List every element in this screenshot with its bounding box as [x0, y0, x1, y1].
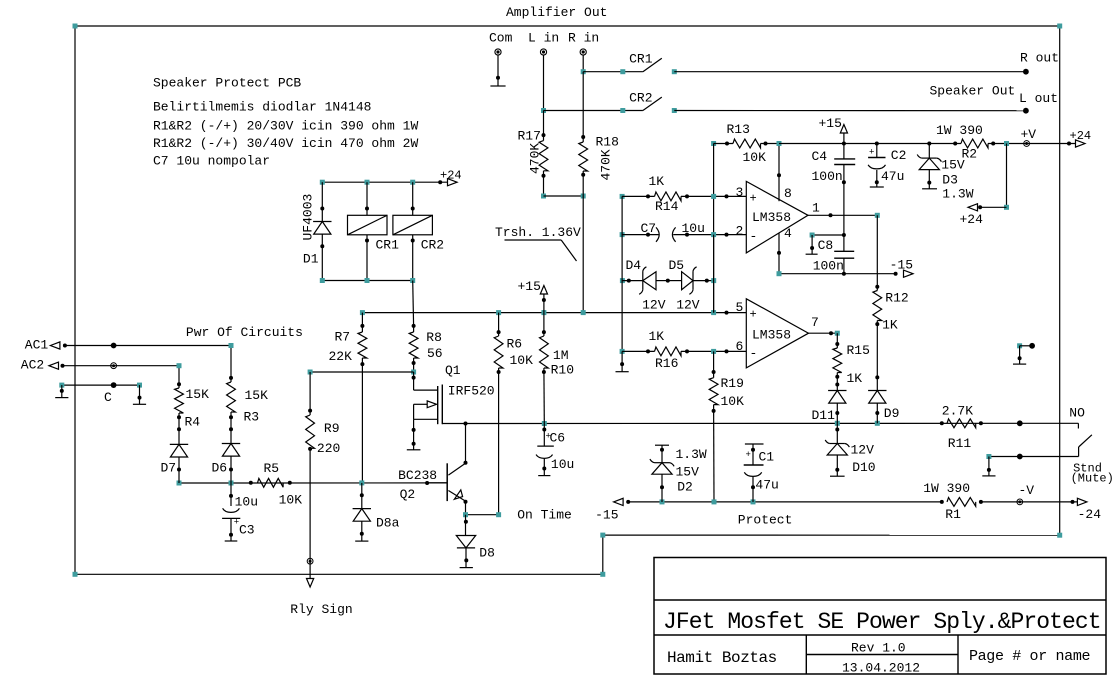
op-amp U1A LM358	[746, 181, 808, 253]
zener D5 12V	[682, 272, 693, 290]
wire R10 down to C6 node	[543, 368, 545, 424]
svg-text:R14: R14	[655, 199, 679, 214]
svg-text:R6: R6	[507, 337, 523, 352]
resistor R19 10K	[713, 351, 715, 377]
svg-text:2: 2	[736, 224, 744, 239]
svg-text:R5: R5	[264, 461, 280, 476]
resistor R18 470K	[582, 72, 584, 142]
ground under R16 left	[621, 351, 623, 371]
transistor Q1 IRF520	[413, 372, 415, 390]
svg-text:Belirtilmemis diodlar 1N4148: Belirtilmemis diodlar 1N4148	[153, 100, 371, 115]
zener D10 12V	[836, 423, 838, 443]
svg-text:R7: R7	[335, 330, 351, 345]
svg-text:LM358: LM358	[752, 210, 791, 225]
svg-text:+: +	[750, 192, 757, 206]
net -15 arrow (pin4 rail)	[904, 270, 914, 277]
svg-text:R10: R10	[551, 363, 574, 378]
terminal -V	[1017, 499, 1023, 505]
resistor R12 1K	[876, 215, 878, 290]
svg-text:Amplifier Out: Amplifier Out	[506, 5, 607, 20]
wire R in down	[582, 55, 584, 71]
svg-text:C3: C3	[239, 523, 255, 538]
svg-text:+15: +15	[819, 116, 842, 131]
capacitor C1 47u	[745, 443, 764, 445]
svg-text:R in: R in	[568, 31, 599, 46]
svg-text:-: -	[750, 229, 758, 244]
wire relay bottom rail	[322, 280, 412, 282]
diode D9	[876, 321, 878, 391]
net +24 arrow (left-pointing)	[968, 204, 978, 211]
capacitor C4 100n	[843, 144, 845, 159]
wire pin4 V-	[778, 233, 780, 274]
svg-text:15K: 15K	[186, 387, 210, 402]
wire +V to +24	[1027, 143, 1076, 145]
wire pin1 output	[808, 214, 877, 216]
contact dot NO row	[1017, 420, 1023, 426]
svg-text:220: 220	[317, 441, 340, 456]
svg-text:Q2: Q2	[400, 487, 416, 502]
svg-text:7: 7	[811, 315, 819, 330]
svg-text:CR1: CR1	[376, 238, 400, 253]
wire R7 down to Q2 base line	[361, 358, 363, 483]
svg-text:C1: C1	[759, 449, 775, 464]
svg-text:47u: 47u	[881, 169, 904, 184]
diode D1 UF4003	[321, 182, 323, 221]
svg-text:Speaker Protect PCB: Speaker Protect PCB	[153, 76, 301, 91]
svg-text:3: 3	[736, 185, 744, 200]
svg-text:Protect: Protect	[738, 512, 793, 527]
wire R17 bottom to R18 bottom	[541, 194, 546, 199]
svg-text:On Time: On Time	[517, 508, 572, 523]
svg-text:1K: 1K	[882, 317, 898, 332]
svg-text:Hamit Boztas: Hamit Boztas	[667, 649, 777, 667]
resistor R2 1W 390	[961, 139, 988, 148]
svg-text:D1: D1	[303, 251, 319, 266]
svg-text:Pwr Of Circuits: Pwr Of Circuits	[186, 325, 303, 340]
svg-text:C: C	[104, 390, 112, 405]
contact pivot to ground	[1017, 343, 1022, 348]
svg-text:+: +	[869, 148, 874, 158]
net -24 arrow	[1071, 500, 1075, 504]
svg-text:12V: 12V	[851, 443, 875, 458]
svg-text:BC238: BC238	[398, 468, 437, 483]
svg-text:IRF520: IRF520	[448, 384, 495, 399]
resistor R1 1W 390	[940, 500, 944, 504]
svg-text:R1: R1	[945, 507, 961, 522]
wire Q2 base row	[179, 482, 447, 484]
wire L in down	[543, 55, 545, 110]
wire relay rail down to R8	[412, 281, 415, 326]
resistor R16 1K	[620, 349, 625, 354]
diode D8	[465, 515, 467, 536]
svg-text:R11: R11	[948, 436, 972, 451]
svg-text:+V: +V	[1021, 127, 1037, 142]
net +24 arrow (relay rail)	[448, 179, 458, 186]
svg-text:D3: D3	[942, 173, 958, 188]
svg-text:+24: +24	[440, 169, 462, 183]
diode D7	[178, 413, 180, 444]
svg-text:R out: R out	[1020, 51, 1059, 66]
svg-text:1: 1	[812, 200, 820, 215]
wire R13 left column down	[713, 144, 715, 313]
capacitor C7 10u nonpolar	[620, 232, 625, 237]
diode D6	[230, 412, 232, 444]
resistor R8 56	[413, 326, 415, 332]
svg-text:8: 8	[784, 186, 792, 201]
svg-text:4: 4	[784, 226, 792, 241]
svg-text:LM358: LM358	[752, 328, 791, 343]
svg-text:C8: C8	[818, 238, 834, 253]
svg-text:-24: -24	[1078, 507, 1102, 522]
svg-text:10K: 10K	[743, 150, 767, 165]
svg-text:1K: 1K	[649, 329, 665, 344]
svg-text:C7 10u nompolar: C7 10u nompolar	[153, 154, 270, 169]
svg-text:D6: D6	[212, 461, 228, 476]
wire pin2 input	[714, 234, 747, 236]
terminal R out	[1023, 69, 1029, 75]
svg-text:R17: R17	[518, 129, 541, 144]
resistor R13 10K	[711, 141, 716, 146]
svg-text:470K: 470K	[599, 149, 614, 180]
wire pin7 output	[809, 332, 838, 334]
svg-text:D11: D11	[812, 408, 836, 423]
svg-text:10K: 10K	[721, 394, 745, 409]
wire Q1 source to ground	[413, 419, 415, 450]
svg-text:1.3W: 1.3W	[676, 447, 707, 462]
svg-text:D7: D7	[161, 461, 177, 476]
svg-text:Rev 1.0: Rev 1.0	[851, 641, 906, 656]
svg-text:R15: R15	[847, 343, 870, 358]
svg-text:-: -	[750, 346, 758, 361]
svg-text:R12: R12	[885, 291, 908, 306]
svg-text:D9: D9	[884, 406, 900, 421]
terminal L in	[540, 49, 546, 55]
capacitor C3 10u	[230, 483, 232, 506]
svg-text:+: +	[546, 432, 551, 442]
svg-text:L out: L out	[1019, 91, 1058, 106]
svg-text:AC2: AC2	[21, 358, 44, 373]
svg-text:1K: 1K	[649, 174, 665, 189]
svg-text:15V: 15V	[941, 158, 965, 173]
wire Q2 emitter down	[465, 501, 467, 515]
svg-text:C6: C6	[550, 431, 566, 446]
diode D11	[836, 373, 838, 391]
svg-text:D8a: D8a	[376, 516, 400, 531]
zener D3 15V 1.3W	[928, 144, 930, 159]
svg-text:JFet Mosfet SE Power Sply.&Pro: JFet Mosfet SE Power Sply.&Protect	[663, 609, 1101, 635]
net +24 arrow (right)	[1076, 140, 1086, 147]
wire CR2 to L out	[674, 110, 1026, 112]
ground right of C row	[139, 385, 141, 404]
svg-text:1W 390: 1W 390	[923, 481, 970, 496]
wire R19 down to Protect rail	[713, 405, 715, 502]
svg-text:5: 5	[736, 300, 744, 315]
resistor R15 1K	[836, 333, 838, 348]
svg-text:Speaker Out: Speaker Out	[930, 84, 1016, 99]
terminal Com	[495, 49, 501, 55]
wire R18 node down to +15 rail	[582, 196, 584, 313]
svg-text:12V: 12V	[642, 298, 666, 313]
relay contact CR1	[581, 69, 586, 74]
resistor R14 1K	[620, 194, 625, 199]
svg-text:10u: 10u	[235, 495, 258, 510]
capacitor C8 100n	[812, 234, 844, 236]
svg-text:15V: 15V	[676, 465, 700, 480]
wire +V rail	[779, 143, 961, 145]
svg-text:22K: 22K	[329, 349, 353, 364]
wire R6 down to On Time node	[498, 368, 500, 515]
terminal R in	[580, 49, 586, 55]
svg-text:10u: 10u	[551, 457, 574, 472]
svg-text:+15: +15	[518, 279, 541, 294]
ground under Stnd row	[988, 457, 990, 476]
svg-text:R19: R19	[721, 376, 744, 391]
wire pin8 V+	[778, 144, 780, 202]
svg-text:1M: 1M	[553, 348, 569, 363]
wire C common row	[62, 384, 140, 386]
svg-text:D4: D4	[626, 258, 642, 273]
wire +24 relay rail	[322, 181, 447, 183]
wire Q1 drain / NO line	[442, 422, 1078, 424]
resistor R7 22K	[361, 313, 363, 332]
svg-text:+: +	[750, 308, 757, 322]
resistor R3 15K	[230, 346, 232, 383]
op-amp U1B LM358	[746, 299, 808, 368]
terminal +V	[1024, 141, 1030, 147]
svg-text:R8: R8	[426, 330, 442, 345]
svg-text:C4: C4	[812, 149, 828, 164]
svg-text:15K: 15K	[245, 388, 269, 403]
svg-text:-15: -15	[595, 508, 618, 523]
wire +15 rail to op-amp pin5	[362, 312, 746, 314]
relay coil CR2	[412, 182, 414, 215]
svg-text:L in: L in	[528, 31, 559, 46]
transistor Q2 BC238	[446, 463, 448, 501]
svg-text:NO: NO	[1069, 405, 1085, 420]
svg-text:R13: R13	[727, 122, 750, 137]
svg-text:D10: D10	[852, 460, 875, 475]
wire AC1	[65, 345, 231, 347]
svg-text:R1&R2 (-/+) 20/30V icin 390 oh: R1&R2 (-/+) 20/30V icin 390 ohm 1W	[153, 118, 418, 133]
svg-text:1.3W: 1.3W	[942, 186, 973, 201]
net Rly Sign arrow	[307, 579, 314, 588]
svg-text:R18: R18	[596, 135, 619, 150]
wire gate node	[310, 371, 414, 373]
resistor R10 1M	[543, 313, 545, 336]
svg-text:Q1: Q1	[445, 363, 461, 378]
svg-text:Trsh. 1.36V: Trsh. 1.36V	[495, 225, 581, 240]
svg-text:10u: 10u	[682, 221, 705, 236]
svg-text:R3: R3	[244, 410, 260, 425]
svg-text:10K: 10K	[510, 353, 534, 368]
svg-text:UF4003: UF4003	[301, 194, 316, 241]
svg-text:100n: 100n	[813, 258, 844, 273]
zener D2 15V 1.3W	[655, 444, 669, 446]
svg-text:CR2: CR2	[629, 91, 652, 106]
svg-text:Page # or name: Page # or name	[969, 648, 1090, 665]
relay coil CR1	[366, 182, 368, 215]
diode D8a	[361, 483, 363, 509]
svg-text:AC1: AC1	[25, 338, 49, 353]
wire Q2 collector up to NO line	[465, 424, 467, 464]
svg-text:R9: R9	[324, 421, 340, 436]
svg-text:CR2: CR2	[421, 238, 444, 253]
svg-text:470K: 470K	[528, 143, 543, 174]
zener D4 12V	[620, 278, 625, 283]
svg-text:Rly Sign: Rly Sign	[290, 602, 352, 617]
wire Protect rail	[628, 501, 942, 503]
resistor R17 470K	[543, 111, 545, 141]
capacitor C2 47u	[876, 144, 878, 158]
capacitor C6 10u	[543, 424, 545, 447]
svg-text:-V: -V	[1019, 483, 1035, 498]
wire Stnd row	[989, 456, 1079, 458]
svg-text:2.7K: 2.7K	[942, 404, 973, 419]
svg-text:D5: D5	[669, 258, 685, 273]
svg-text:13.04.2012: 13.04.2012	[842, 661, 920, 676]
ground left of C row	[61, 385, 63, 398]
wire On Time node	[466, 514, 499, 516]
resistor R9 220	[309, 372, 311, 415]
resistor R5 10K	[258, 478, 284, 487]
wire +24 return branch	[1006, 144, 1008, 208]
wire R8 to Q1 gate	[413, 358, 415, 372]
svg-text:(Mute): (Mute)	[1071, 472, 1114, 486]
svg-text:1K: 1K	[847, 371, 863, 386]
wire right column (pin5 net)	[713, 235, 715, 313]
wire left column	[621, 196, 623, 351]
svg-text:C7: C7	[641, 221, 657, 236]
ground under Com	[497, 55, 499, 86]
svg-text:100n: 100n	[812, 169, 843, 184]
svg-text:56: 56	[427, 346, 443, 361]
svg-text:R1&R2 (-/+) 30/40V icin 470 oh: R1&R2 (-/+) 30/40V icin 470 ohm 2W	[153, 136, 418, 151]
svg-text:1W 390: 1W 390	[936, 123, 983, 138]
svg-text:+24: +24	[1070, 129, 1092, 143]
title block	[654, 558, 1106, 675]
wire pin3 input	[714, 195, 747, 197]
svg-text:10K: 10K	[279, 493, 303, 508]
svg-text:12V: 12V	[676, 298, 700, 313]
schematic frame / ground bus wire	[75, 25, 1060, 27]
terminal L out	[1023, 108, 1029, 114]
wire AC2	[63, 365, 180, 367]
wire R9 down to Rly Sign	[309, 448, 311, 578]
svg-text:47u: 47u	[755, 477, 778, 492]
svg-text:-15: -15	[890, 258, 913, 273]
svg-text:R16: R16	[655, 356, 678, 371]
svg-text:C2: C2	[891, 148, 907, 163]
svg-text:Com: Com	[489, 31, 513, 46]
svg-text:D8: D8	[479, 546, 495, 561]
svg-text:+: +	[746, 450, 751, 460]
wire pin4 rail to -15	[779, 273, 896, 275]
resistor R4 15K	[178, 366, 180, 388]
svg-text:CR1: CR1	[629, 52, 653, 67]
svg-text:R4: R4	[185, 415, 201, 430]
resistor R6 10K	[498, 313, 500, 336]
relay contact CR2	[541, 108, 546, 113]
svg-text:+24: +24	[960, 212, 984, 227]
svg-text:D2: D2	[677, 480, 693, 495]
wire CR1 to R out	[674, 71, 1026, 73]
resistor R11 2.7K	[940, 421, 944, 425]
